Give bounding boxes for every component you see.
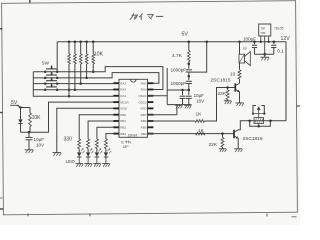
resistor R1 10K pull-up xyxy=(68,42,70,54)
resistor R7 4.7K xyxy=(188,42,190,51)
capacitor C7 0.1 xyxy=(273,42,275,44)
wire bus to switch right column xyxy=(56,42,58,72)
transistor Q1 2SC1815 xyxy=(234,83,236,91)
svg-text:RB3: RB3 xyxy=(120,132,126,136)
wire switch row1 xyxy=(33,71,93,73)
wire switch left common bus xyxy=(33,72,113,96)
svg-text:RB2: RB2 xyxy=(120,126,126,130)
wire row1 step to upper wrap xyxy=(93,67,163,90)
wire IC pin RB3 to LED4 xyxy=(106,134,113,139)
capacitor C5 10uF 10V xyxy=(28,132,30,137)
switch SW3 xyxy=(46,80,57,82)
svg-text:RB4: RB4 xyxy=(141,132,147,136)
junction dot at 10uF tap xyxy=(28,131,31,134)
frame tick bottom b xyxy=(89,214,91,217)
svg-text:1K: 1K xyxy=(196,111,203,117)
wire contact bar xyxy=(252,113,265,115)
frame tick left mid xyxy=(0,112,3,114)
switch SW4 xyxy=(46,86,57,88)
ground (LED4) xyxy=(102,163,110,165)
junction dots regulator pins xyxy=(260,41,262,43)
svg-text:2SC1815: 2SC1815 xyxy=(211,77,231,83)
svg-text:RB7: RB7 xyxy=(141,113,147,117)
wire 12V riser to rail xyxy=(285,42,287,121)
wire 5V flag to node xyxy=(17,105,30,107)
LED D3 xyxy=(86,152,90,156)
svg-text:SW: SW xyxy=(42,60,50,65)
regulator U2 78L05 body xyxy=(259,24,271,36)
svg-text:10K: 10K xyxy=(32,115,42,121)
ground (Q2 emitter) xyxy=(234,148,242,150)
svg-text:4.7K: 4.7K xyxy=(172,53,183,59)
svg-text:RA4: RA4 xyxy=(120,94,126,98)
svg-text:100μF: 100μF xyxy=(243,36,256,41)
svg-text:16V: 16V xyxy=(196,99,205,104)
frame tick top xyxy=(29,0,31,3)
wire Q1 emitter to ground xyxy=(239,92,241,103)
wire IC pin RB2 to LED3 xyxy=(97,127,113,139)
capacitor C6 100uF xyxy=(254,42,256,44)
frame tick right xyxy=(297,105,301,107)
svg-text:RA0: RA0 xyxy=(141,88,147,92)
switch SW1 xyxy=(46,68,57,70)
ground (rail right) xyxy=(184,104,191,106)
svg-text:OSC1: OSC1 xyxy=(138,94,147,98)
frame corner mark bottom-right xyxy=(292,216,297,218)
LED D2 xyxy=(77,152,81,156)
resistor R11 22K (Q2 base) xyxy=(222,134,224,138)
svg-text:10μF: 10μF xyxy=(194,93,205,98)
svg-text:RA1: RA1 xyxy=(141,81,147,85)
wire reset node to MCLR xyxy=(21,102,114,132)
diode D1 (across 10K) xyxy=(20,108,22,120)
ground (rail left) xyxy=(175,104,182,106)
resistor R13 330 xyxy=(78,139,81,149)
svg-text:10K: 10K xyxy=(94,52,104,58)
wire IC pin RB6 to rail riser xyxy=(148,114,177,116)
wire IC pin RB4 line to Q2 base xyxy=(148,133,235,135)
resistor R10 1K xyxy=(196,132,206,135)
wire ground rail (psu) xyxy=(255,53,274,55)
wire switch row3 to IC pin RA2 xyxy=(33,83,113,85)
svg-text:RB1: RB1 xyxy=(120,119,126,123)
capacitor C3 10uF xyxy=(182,90,184,95)
resistor R3 10K pull-up xyxy=(80,42,82,54)
junction dot R1 crosses switch row4 xyxy=(68,89,71,92)
wire IC pin OSC1 to riser xyxy=(148,95,168,97)
svg-text:GND: GND xyxy=(120,107,128,111)
wire row2 step to inner wrap xyxy=(87,73,159,84)
svg-text:1000pF: 1000pF xyxy=(171,68,187,73)
frame tick left nub xyxy=(0,208,3,210)
svg-text:1K: 1K xyxy=(198,128,205,134)
ground (LED2) xyxy=(84,163,92,165)
capacitor C4 10uF xyxy=(188,90,190,95)
resistor R12 10 xyxy=(238,70,241,79)
junction dot VR loop center xyxy=(257,125,260,128)
IC U1 pins xyxy=(113,82,119,84)
svg-text:SP: SP xyxy=(243,47,247,51)
resistor R15 330 xyxy=(95,139,98,149)
resistor R4 10K pull-up xyxy=(86,42,88,54)
svg-text:RA2: RA2 xyxy=(120,81,126,85)
wire Q2 emitter to ground xyxy=(237,138,239,148)
potentiometer VR1 body xyxy=(254,118,264,124)
svg-text:10V: 10V xyxy=(36,143,45,148)
svg-text:2SC1815: 2SC1815 xyxy=(243,136,263,142)
wire output rail xyxy=(250,120,286,122)
svg-text:18P: 18P xyxy=(123,145,130,149)
svg-text:5V: 5V xyxy=(182,32,189,38)
wire switch row2 xyxy=(33,77,86,79)
junction dot between caps xyxy=(188,75,191,78)
wire bus riser to osc node xyxy=(189,42,207,72)
junction dot Q1 base node xyxy=(226,86,229,89)
junction dot Q2 base node xyxy=(221,132,224,135)
resistor R9 22K (Q1 base) xyxy=(227,88,229,90)
svg-text:10μF: 10μF xyxy=(34,137,45,142)
svg-text:RB6: RB6 xyxy=(141,119,147,123)
LED D4 xyxy=(95,152,99,156)
op-amp U1 IC body PIC16F84 xyxy=(119,79,148,137)
title label タイマー (drawn strokes) xyxy=(130,13,134,19)
wire Q2 collector riser xyxy=(238,121,250,130)
wire 5V/12V top bus xyxy=(57,41,286,43)
wire caps bottom rail xyxy=(167,104,191,106)
ground (reset cap) xyxy=(25,149,34,151)
ground (psu) xyxy=(260,56,269,58)
junction dots caps line xyxy=(181,89,184,92)
junction dots on top bus xyxy=(68,41,71,44)
ground (R9) xyxy=(224,100,232,102)
regulator U2 pins xyxy=(260,36,262,42)
frame tick left lower xyxy=(0,197,3,199)
junction dot reset node xyxy=(19,106,22,109)
frame tick left upper xyxy=(0,28,3,30)
frame tick bottom a xyxy=(27,214,29,217)
speaker SP1 xyxy=(239,54,245,63)
svg-text:LED: LED xyxy=(66,159,76,165)
svg-text:VDD: VDD xyxy=(140,107,147,111)
ground (LED1) xyxy=(75,163,83,165)
svg-text:22K: 22K xyxy=(209,142,218,148)
junction dot psu ground node xyxy=(263,53,266,56)
wire IC pin OSC1 riser xyxy=(166,68,168,105)
svg-text:330: 330 xyxy=(64,137,73,143)
wire GND branch to IC pin GND xyxy=(57,108,113,152)
svg-text:RA3: RA3 xyxy=(120,88,126,92)
resistor R14 330 xyxy=(87,139,90,149)
capacitor C1 1000pF xyxy=(188,64,190,69)
wire IC pin RB0 to LED1 xyxy=(79,115,113,139)
ground (switch common) xyxy=(53,152,62,154)
ground (R11) xyxy=(219,148,227,150)
resistor R8 1K xyxy=(195,120,205,123)
potentiometer VR1 wiper arrow xyxy=(258,107,260,117)
ground (LED3) xyxy=(93,163,101,165)
svg-text:12V: 12V xyxy=(281,36,291,42)
svg-text:16F84: 16F84 xyxy=(128,134,138,138)
svg-text:0.1: 0.1 xyxy=(277,48,284,54)
switch SW2 xyxy=(46,74,57,76)
wire 1K to Q1 base xyxy=(205,88,236,122)
connector contact right xyxy=(261,106,264,114)
resistor R16 330 xyxy=(104,139,107,149)
svg-text:RB5: RB5 xyxy=(141,126,147,130)
svg-text:MCLR: MCLR xyxy=(120,100,129,104)
svg-text:OSC2: OSC2 xyxy=(138,100,147,104)
capacitor C2 1000pF xyxy=(188,76,190,80)
wire OSC caps top line xyxy=(167,89,189,91)
wire switch row4 to IC pin RA3 xyxy=(33,89,113,91)
resistor R5 10K pull-up xyxy=(92,42,94,54)
wire 10ohm to Q1 collector xyxy=(239,79,241,83)
connector contact left xyxy=(253,106,256,114)
wire speaker to 10ohm xyxy=(239,63,241,70)
frame tick bottom c xyxy=(266,214,268,217)
resistor R2 10K pull-up xyxy=(74,42,76,54)
svg-text:RB0: RB0 xyxy=(120,113,126,117)
ground (Q1 emitter) xyxy=(236,102,244,104)
svg-text:78L05: 78L05 xyxy=(274,26,284,30)
svg-text:785: 785 xyxy=(260,31,265,35)
transistor Q2 2SC1815 xyxy=(233,130,235,138)
svg-text:22K: 22K xyxy=(218,91,227,97)
wire VR lower loop xyxy=(250,121,271,127)
junction dot osc top xyxy=(188,63,191,66)
junction dots output rail xyxy=(248,120,251,123)
LED D5 xyxy=(104,152,108,156)
svg-text:10: 10 xyxy=(230,72,236,78)
wire psu ground stub xyxy=(264,54,266,57)
wire IC pin RB1 to LED2 xyxy=(88,121,113,139)
wire bus to speaker xyxy=(239,42,241,54)
svg-text:1000pF: 1000pF xyxy=(171,81,187,86)
wire IC pin RB5 line xyxy=(148,120,196,122)
svg-text:IC: IC xyxy=(121,140,125,144)
resistor R6 10K (reset) xyxy=(29,108,31,114)
